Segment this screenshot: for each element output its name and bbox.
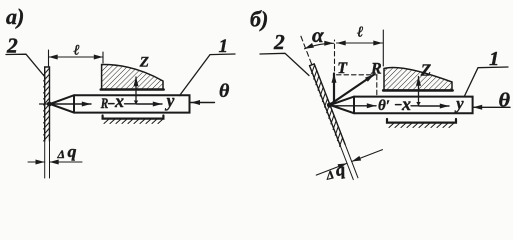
theta arrow (a) (191, 81, 230, 102)
label 2 with leader (6, 34, 45, 78)
lower guide (a) (103, 116, 164, 124)
label a) (6, 4, 24, 29)
dimension l (a) (49, 43, 104, 67)
cam (upper hatched block b) (383, 67, 452, 90)
inner arrow y (b) (419, 105, 449, 107)
rod (probe with conical tip) a (50, 95, 190, 112)
label 2 with leader (b) (260, 30, 309, 76)
svg-text:б): б) (250, 7, 268, 32)
svg-text:R: R (100, 96, 108, 112)
T force arrow (b) (334, 60, 348, 103)
label x (114, 91, 124, 111)
svg-text:α: α (312, 23, 324, 47)
label theta-prime (378, 98, 390, 114)
svg-text:q: q (334, 159, 348, 180)
dash between theta' and x (396, 104, 402, 106)
rod (probe with conical tip) b (330, 97, 473, 114)
tip contact blob (b) (327, 102, 332, 107)
tip contact blob (a) (47, 102, 52, 107)
label 1 with leader (b) (465, 48, 509, 96)
svg-text:Δ: Δ (324, 167, 335, 182)
axis stub left of tip (40, 103, 51, 105)
svg-text:y: y (454, 94, 464, 113)
label y (165, 91, 175, 111)
cam (upper hatched block a) (101, 64, 164, 89)
vertical dashed reference line (b) (334, 40, 336, 71)
Z arrow (b) (416, 60, 431, 106)
svg-text:ℓ: ℓ (357, 25, 363, 41)
svg-text:2: 2 (273, 30, 285, 54)
dash between R and x (109, 103, 115, 105)
tilted wall group (b) (267, 22, 388, 191)
delta-q dimension (b) (316, 150, 382, 175)
R force arrow (b) (330, 60, 382, 104)
svg-text:x: x (401, 94, 411, 114)
svg-text:ℓ: ℓ (74, 43, 80, 59)
dashed wall extension above (b) (300, 35, 311, 64)
dimension l (b) (337, 25, 384, 67)
svg-text:θ: θ (219, 81, 229, 102)
svg-text:y: y (165, 91, 175, 111)
alpha dimension arc (b) (305, 23, 334, 49)
center line segment to Z (125, 103, 137, 105)
inner arrow theta'-x (b) (333, 105, 376, 107)
svg-text:θ′: θ′ (378, 98, 390, 114)
label R (100, 96, 108, 112)
svg-text:Z: Z (139, 55, 149, 71)
svg-text:Δ: Δ (57, 147, 66, 161)
label y (b) (454, 94, 464, 113)
center line segment to Z (b) (411, 105, 419, 107)
svg-text:1: 1 (489, 48, 499, 70)
inner arrow R-x (a) (53, 103, 91, 105)
delta-q label (b) (323, 159, 348, 182)
svg-text:θ: θ (499, 91, 511, 112)
svg-text:x: x (114, 91, 124, 111)
wall (vertical hatched strip) (44, 67, 50, 141)
dimension delta-q (a) (28, 142, 82, 162)
Z arrow (a) (134, 55, 149, 105)
svg-text:а): а) (6, 4, 24, 29)
wall thin extension lines below (45, 141, 50, 178)
label x (b) (401, 94, 411, 114)
svg-text:Z: Z (420, 60, 431, 79)
dashed projection lines (b) (337, 75, 378, 95)
wall thin extensions below (b) (340, 144, 358, 179)
theta arrow (b) (473, 91, 510, 112)
label b) (250, 7, 268, 32)
label 1 with leader (a) (180, 36, 236, 96)
svg-text:q: q (68, 142, 78, 161)
lower guide (b) (387, 119, 456, 128)
inner arrow y (a) (137, 103, 163, 105)
